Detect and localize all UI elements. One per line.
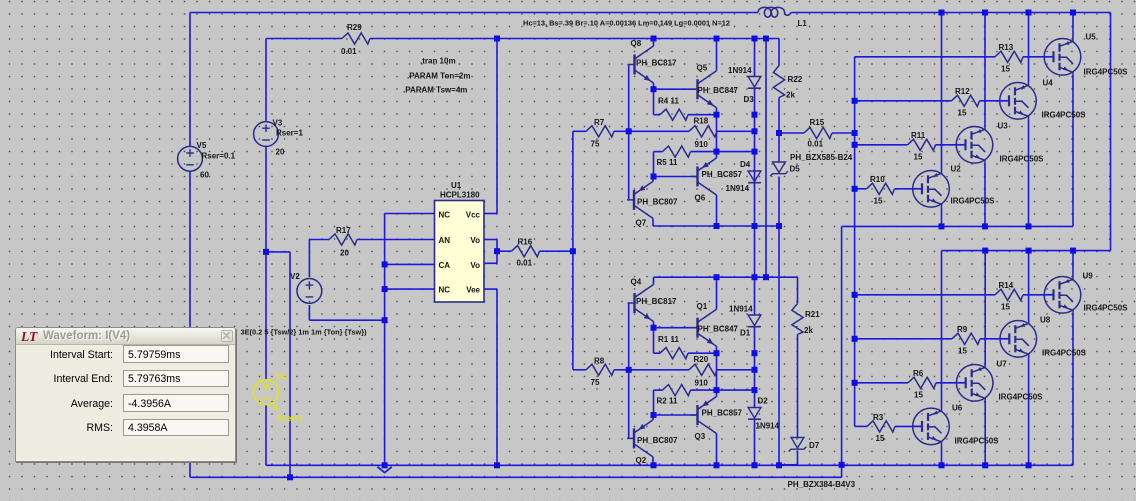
wire U2 emitter [941, 207, 943, 226]
svg-text:2k: 2k [804, 326, 813, 335]
wire U7 collector [984, 251, 986, 365]
svg-text:IRG4PC50S: IRG4PC50S [1000, 155, 1045, 164]
junction (290,477.3) [287, 474, 293, 480]
svg-text:PH_BZX384-B4V3: PH_BZX384-B4V3 [788, 480, 856, 489]
svg-text:PH_BC807: PH_BC807 [637, 198, 678, 207]
resistor R13 [995, 43, 1023, 74]
wire R6 line [855, 382, 957, 384]
wire Vo pins to R16 [484, 240, 512, 264]
resistor R22 [773, 66, 802, 100]
IGBT U2 IRG4PC50S [913, 165, 995, 208]
wire right edge down [1110, 13, 1112, 251]
svg-text:R2 11: R2 11 [657, 397, 678, 406]
wire Q3 collector stub [716, 434, 718, 466]
svg-text:Q1: Q1 [697, 302, 708, 311]
svg-text:NC: NC [439, 211, 451, 220]
junction (716.5,38.5) [714, 36, 720, 42]
wire Q5 base [654, 88, 698, 90]
diode D2 1N914 [748, 397, 780, 431]
transistor Q8 PH_BC817 [628, 39, 678, 83]
svg-text:1N914: 1N914 [729, 305, 753, 314]
wire upper block rail y38 [778, 39, 780, 66]
resistor R16 [512, 238, 540, 268]
transistor Q3 PH_BC857 [691, 397, 743, 442]
svg-text:R5 11: R5 11 [657, 158, 678, 167]
junction (1028.5,12.5) [1026, 10, 1032, 16]
svg-text:IRG4PC50S: IRG4PC50S [955, 437, 1000, 446]
junction (941.5,465.3) [939, 462, 945, 468]
wire Q1 emitter stub [716, 346, 718, 353]
wire R8 line [573, 369, 629, 371]
svg-text:15: 15 [1001, 303, 1010, 312]
junction (754.5,353.2) [752, 350, 758, 356]
resistor R12 [952, 87, 980, 118]
junction (754.5,38.5) [752, 36, 758, 42]
resistor R17 [329, 226, 357, 258]
svg-text:Vcc: Vcc [466, 211, 481, 220]
svg-text:R13: R13 [999, 43, 1014, 52]
voltage source V2 [290, 272, 322, 303]
svg-text:15: 15 [914, 391, 923, 400]
wire R7 line [573, 130, 629, 132]
svg-text:PH_BC857: PH_BC857 [702, 170, 743, 179]
svg-text:15: 15 [874, 197, 883, 206]
junction (985.2,465.3) [982, 462, 988, 468]
transistor Q7 PH_BC807 [627, 181, 678, 227]
svg-text:R11: R11 [911, 131, 926, 140]
junction (754.5,277.2) [752, 274, 758, 280]
svg-text:Q3: Q3 [695, 432, 706, 441]
wire U5 emitter [1072, 75, 1074, 226]
wire x716 mid lower [716, 353, 718, 390]
wire lower collector rail [942, 250, 1111, 252]
waveform dialog [15, 327, 236, 462]
junction (754.5,151.6) [752, 149, 758, 155]
svg-text:R4 11: R4 11 [658, 97, 679, 106]
svg-text:2k: 2k [786, 91, 795, 100]
junction (716.5,151.6) [714, 149, 720, 155]
wire U3 emitter [984, 163, 986, 226]
junction (854.6,100.8) [852, 98, 858, 104]
svg-text:75: 75 [591, 140, 600, 149]
wire x797 R21-D7 [779, 277, 798, 465]
directive param Ton [407, 72, 470, 81]
IGBT U3 IRG4PC50S [956, 122, 1044, 164]
wire V5 bottom [189, 171, 191, 477]
svg-text:60: 60 [200, 171, 209, 180]
wire Q6 emitter stub [716, 152, 718, 158]
resistor R5 [657, 146, 691, 167]
junction (653.5,176.5) [651, 174, 657, 180]
svg-text:Rser=1: Rser=1 [276, 129, 303, 138]
svg-text:IRG4PC50S: IRG4PC50S [1084, 68, 1129, 77]
wire R14 line [855, 294, 1045, 296]
svg-text:PH_BC847: PH_BC847 [698, 325, 739, 334]
wire Q5 emitter stub [716, 108, 718, 115]
IGBT U7 IRG4PC50S [956, 360, 1043, 402]
wire CA pin [385, 263, 435, 265]
junction (779,465.3) [776, 462, 782, 468]
wire R18 line [629, 130, 755, 132]
wire ground rail y465 [266, 464, 1073, 466]
svg-text:R10: R10 [870, 175, 885, 184]
wire V3 top [265, 39, 267, 122]
junction (653.5,327.7) [651, 325, 657, 331]
diode D1 1N914 [729, 305, 761, 338]
wire x716 mid [716, 115, 718, 152]
svg-text:PH_BZX585-B24: PH_BZX585-B24 [790, 153, 853, 162]
wire Q7 emitter stub [652, 177, 654, 182]
wire R13 line [855, 56, 1045, 58]
junction (941.5,226.4) [939, 223, 945, 229]
wire R10 line [855, 188, 913, 190]
wire x854 vertical [854, 57, 856, 427]
transistor Q4 PH_BC817 [628, 278, 678, 322]
svg-text:Rser=0.1: Rser=0.1 [202, 152, 236, 161]
directive param Tsw [403, 86, 467, 95]
wire x754 top [754, 39, 756, 466]
junction (384.6,289.1) [382, 286, 388, 292]
junction (716.5,226) [714, 223, 720, 229]
wire R11 line [855, 144, 957, 146]
transistor Q6 PH_BC857 [691, 158, 743, 203]
svg-text:PH_BC847: PH_BC847 [698, 86, 739, 95]
svg-text:HCPL3180: HCPL3180 [440, 191, 480, 200]
wire Q6 base [654, 176, 698, 178]
svg-text:R12: R12 [955, 87, 970, 96]
resistor R7 [586, 118, 614, 149]
junction (941.5,12.5) [939, 10, 945, 16]
junction (754.5,369.8) [752, 367, 758, 373]
svg-text:Q6: Q6 [695, 194, 706, 203]
wire Q4 collector stub [653, 277, 655, 284]
voltage source V4 [254, 373, 304, 424]
wire R4 line [654, 89, 717, 115]
wire V2 bottom [309, 305, 384, 320]
voltage source V3 [254, 119, 304, 157]
svg-text:Vo: Vo [470, 261, 480, 270]
wire U6 collector [941, 251, 943, 409]
svg-text:R22: R22 [788, 75, 803, 84]
junction (653.5,38.5) [651, 36, 657, 42]
resistor R15 [804, 118, 832, 149]
wire Q2 emitter stub [652, 415, 654, 420]
transistor Q2 PH_BC807 [627, 420, 678, 465]
wire Q1 base [654, 327, 698, 329]
junction (1073,12.5) [1070, 10, 1076, 16]
svg-text:15: 15 [958, 347, 967, 356]
wire Q5 collector stub [716, 39, 718, 71]
svg-text:R3: R3 [873, 413, 884, 422]
wire Q7 collector to rail [653, 218, 779, 226]
junction (653.5,465.3) [651, 462, 657, 468]
junction (497,38.5) [494, 36, 500, 42]
svg-text:1N914: 1N914 [726, 184, 750, 193]
junction (854.6,382.8) [852, 380, 858, 386]
svg-text:Q5: Q5 [697, 64, 708, 73]
svg-text:LT: LT [21, 330, 38, 343]
wire U9 collector [1072, 251, 1074, 277]
junction (854.6,294.8) [852, 292, 858, 298]
inductor L1 params [523, 19, 730, 28]
svg-text:.PARAM Tsw=4m: .PARAM Tsw=4m [403, 86, 467, 95]
junction (1028.6,465.3) [1026, 462, 1032, 468]
junction (716.5,277.2) [714, 274, 720, 280]
wire V2 top / R17 line [309, 240, 434, 277]
V4 value text [241, 328, 368, 337]
wire U4 collector [1028, 13, 1030, 83]
svg-text:Vo: Vo [470, 236, 480, 245]
junction (854.6,144.8) [852, 142, 858, 148]
IGBT U9 IRG4PC50S [1044, 272, 1128, 314]
junction (1028.6,250.6) [1026, 248, 1032, 254]
svg-text:R1 11: R1 11 [658, 335, 679, 344]
svg-text:IRG4PC50S: IRG4PC50S [1084, 304, 1129, 313]
resistor R6 [908, 369, 936, 400]
junction (854.6,188.8) [852, 186, 858, 192]
svg-text:U4: U4 [1043, 79, 1054, 88]
svg-text:Q8: Q8 [631, 39, 642, 48]
svg-text:IRG4PC50S: IRG4PC50S [999, 393, 1044, 402]
junction (779,133) [776, 130, 782, 136]
junction (854.6,133) [852, 130, 858, 136]
wire U8 collector [1028, 251, 1030, 321]
wire upper emitter rail [842, 226, 1073, 464]
svg-text:20: 20 [276, 148, 285, 157]
junction (754.5,226) [752, 223, 758, 229]
zener D5 PH_BZX585-B24 [770, 153, 853, 176]
resistor R1 [658, 335, 688, 359]
junction (854.6,338.8) [852, 336, 858, 342]
svg-text:U7: U7 [997, 360, 1008, 369]
junction (754.5,114.7) [752, 112, 758, 118]
svg-text:PH_BC807: PH_BC807 [637, 436, 678, 445]
svg-text:NC: NC [439, 286, 451, 295]
svg-text:4: 4 [273, 404, 278, 413]
wire lower rail y277 [654, 276, 798, 278]
junction (716.5,114.7) [714, 112, 720, 118]
wire Q1 collector stub [716, 277, 718, 309]
wire U5 collector [1072, 13, 1074, 39]
svg-text:.tran 10m: .tran 10m [420, 57, 456, 66]
svg-text:V3: V3 [273, 119, 283, 128]
junction (628.7,131.3) [626, 128, 632, 134]
wire top rail left segment [190, 12, 758, 14]
wire top rail right segment [791, 12, 1111, 14]
resistor R3 [867, 413, 895, 443]
wire V3 to V4 [265, 146, 267, 379]
svg-text:R21: R21 [805, 310, 820, 319]
junction (985.2,250.6) [982, 248, 988, 254]
svg-text:0.01: 0.01 [808, 140, 824, 149]
wire V3- jog [266, 252, 290, 477]
wire U3 collector [984, 13, 986, 127]
wire x384 vertical [384, 214, 386, 466]
wire x628 lower (Q4 base to Q2 base) [628, 303, 630, 438]
wire U8 emitter [1028, 357, 1030, 465]
junction (841.6,464.8) [839, 462, 845, 468]
resistor R11 [908, 131, 936, 162]
svg-text:R9: R9 [957, 325, 968, 334]
svg-text:0.01: 0.01 [517, 259, 533, 268]
wire V5 top [189, 13, 191, 147]
svg-text:D4: D4 [740, 160, 751, 169]
svg-text:Q4: Q4 [631, 278, 642, 287]
svg-text:Vee: Vee [466, 286, 480, 295]
svg-text:3E(0.2 5 {Tsw/2} 1m 1m {Ton} {: 3E(0.2 5 {Tsw/2} 1m 1m {Ton} {Tsw}) [241, 328, 368, 337]
wire NC top pin [385, 213, 435, 215]
wire R2 line [654, 390, 717, 415]
svg-text:15: 15 [1001, 65, 1010, 74]
svg-text:D5: D5 [790, 165, 801, 174]
wire R29 line [266, 38, 779, 40]
wire U6 emitter [941, 445, 943, 466]
svg-text:U5: U5 [1086, 33, 1097, 42]
svg-text:IRG4PC50S: IRG4PC50S [1042, 111, 1087, 120]
wire Q2 collector stub [652, 457, 654, 465]
wire Q8 emitter stub [653, 83, 655, 89]
svg-text:U3: U3 [998, 122, 1009, 131]
svg-text:D1: D1 [740, 329, 751, 338]
wire U4 emitter [1028, 119, 1030, 226]
svg-text:D7: D7 [809, 441, 820, 450]
svg-text:910: 910 [695, 379, 709, 388]
wire R16 to x572 [540, 250, 573, 252]
junction (1073,250.6) [1070, 248, 1076, 254]
IGBT U6 IRG4PC50S [913, 404, 999, 446]
wire x841 jog up [841, 465, 843, 478]
svg-text:R7: R7 [594, 118, 605, 127]
transistor Q1 PH_BC847 [691, 302, 739, 346]
resistor R4 [658, 97, 688, 121]
svg-text:Rser=1: Rser=1 [277, 414, 304, 423]
svg-text:R29: R29 [347, 23, 362, 32]
wire Vee pin [484, 289, 497, 465]
svg-text:75: 75 [591, 378, 600, 387]
wire Q4 emitter stub [653, 322, 655, 328]
svg-text:V2: V2 [290, 272, 300, 281]
wire y390 link [717, 389, 755, 391]
junction (384.6,465.3) [382, 462, 388, 468]
LT logo [21, 330, 39, 343]
wire x572 vertical [572, 131, 574, 369]
wire x766 vertical [765, 39, 767, 278]
svg-text:R20: R20 [694, 355, 709, 364]
junction (754.5,465.3) [752, 462, 758, 468]
wire R15 line [779, 132, 855, 134]
wire Q3 base [654, 414, 698, 416]
svg-text:R8: R8 [594, 357, 605, 366]
junction (384.6,264.4) [382, 261, 388, 267]
wire Q6 collector stub [716, 195, 718, 226]
svg-text:PH_BC817: PH_BC817 [636, 297, 677, 306]
junction (779,226) [776, 223, 782, 229]
junction (985,12.5) [982, 10, 988, 16]
zener D7 PH_BZX384-B4V3 [788, 438, 856, 490]
junction (716.5,465.3) [714, 462, 720, 468]
junction (766,277.2) [763, 274, 769, 280]
ground [377, 467, 391, 473]
junction (766,38.5) [763, 36, 769, 42]
svg-text:Hc=13, Bs=.39 Br=.10 A=0.00136: Hc=13, Bs=.39 Br=.10 A=0.00136 Lm=0.149 … [523, 19, 730, 28]
wire x628 upper (Q8 base to Q7 base) [628, 65, 630, 200]
svg-text:U6: U6 [952, 404, 963, 413]
junction (384.6,320.2) [382, 317, 388, 323]
svg-text:AN: AN [439, 236, 451, 245]
svg-text:R14: R14 [999, 281, 1014, 290]
resistor R2 [657, 385, 691, 406]
IGBT U5 IRG4PC50S [1044, 33, 1128, 77]
inductor L1 [758, 7, 807, 28]
wire Q8 collector stub [653, 39, 655, 47]
svg-text:IRG4PC50S: IRG4PC50S [1042, 349, 1087, 358]
wire Vcc pin [484, 39, 497, 214]
wire U7 emitter [984, 401, 986, 465]
wire R9 line [855, 338, 1001, 340]
svg-text:U2: U2 [951, 165, 962, 174]
diode D4 1N914 [726, 160, 761, 193]
wire U9 emitter [1072, 313, 1074, 465]
svg-text:PH_BC857: PH_BC857 [702, 409, 743, 418]
svg-text:V4: V4 [276, 373, 286, 382]
junction (754.5,390.1) [752, 387, 758, 393]
junction (985,226.4) [982, 223, 988, 229]
junction (266,251.9) [263, 249, 269, 255]
resistor R21 [792, 304, 820, 336]
wire R12 line [855, 100, 1001, 102]
svg-text:20: 20 [340, 249, 349, 258]
resistor R14 [995, 281, 1023, 312]
svg-text:.PARAM Ton=2m: .PARAM Ton=2m [407, 72, 470, 81]
svg-text:U9: U9 [1083, 272, 1094, 281]
junction (572.9,251.2) [570, 248, 576, 254]
resistor R9 [952, 325, 980, 356]
svg-text:Q2: Q2 [636, 456, 647, 465]
svg-text:15: 15 [876, 434, 885, 443]
diode D3 1N914 [728, 66, 761, 104]
IGBT U8 IRG4PC50S [1000, 316, 1087, 358]
junction (653.5,415) [651, 412, 657, 418]
svg-text:1N914: 1N914 [728, 66, 752, 75]
svg-text:V5: V5 [197, 141, 207, 150]
transistor Q5 PH_BC847 [691, 64, 739, 108]
svg-text:U8: U8 [1040, 316, 1051, 325]
directive tran [420, 57, 456, 66]
wire bottom rail y477 [190, 476, 842, 478]
IC U1 HCPL3180 [435, 181, 485, 302]
svg-text:D3: D3 [744, 95, 755, 104]
wire R1 line [654, 328, 717, 354]
svg-text:R6: R6 [913, 369, 924, 378]
wire R3 line [855, 425, 913, 427]
junction (1028.5,226.4) [1026, 223, 1032, 229]
svg-text:D2: D2 [758, 397, 769, 406]
junction (716.5,390.1) [714, 387, 720, 393]
junction (497,251.2) [494, 248, 500, 254]
junction (653.5,89.2) [651, 86, 657, 92]
wire R20 line [629, 369, 755, 371]
resistor R29 [341, 23, 370, 56]
wire x779 R22-D5 [778, 98, 780, 466]
wire U2 collector [941, 13, 943, 171]
wire V4 bottom [265, 405, 267, 466]
resistor R20 [689, 355, 717, 388]
IGBT U4 IRG4PC50S [1000, 79, 1086, 120]
svg-text:R18: R18 [694, 117, 709, 126]
voltage source V5 [178, 141, 236, 180]
wire Q3 emitter stub [716, 390, 718, 396]
svg-text:Q7: Q7 [636, 219, 647, 228]
